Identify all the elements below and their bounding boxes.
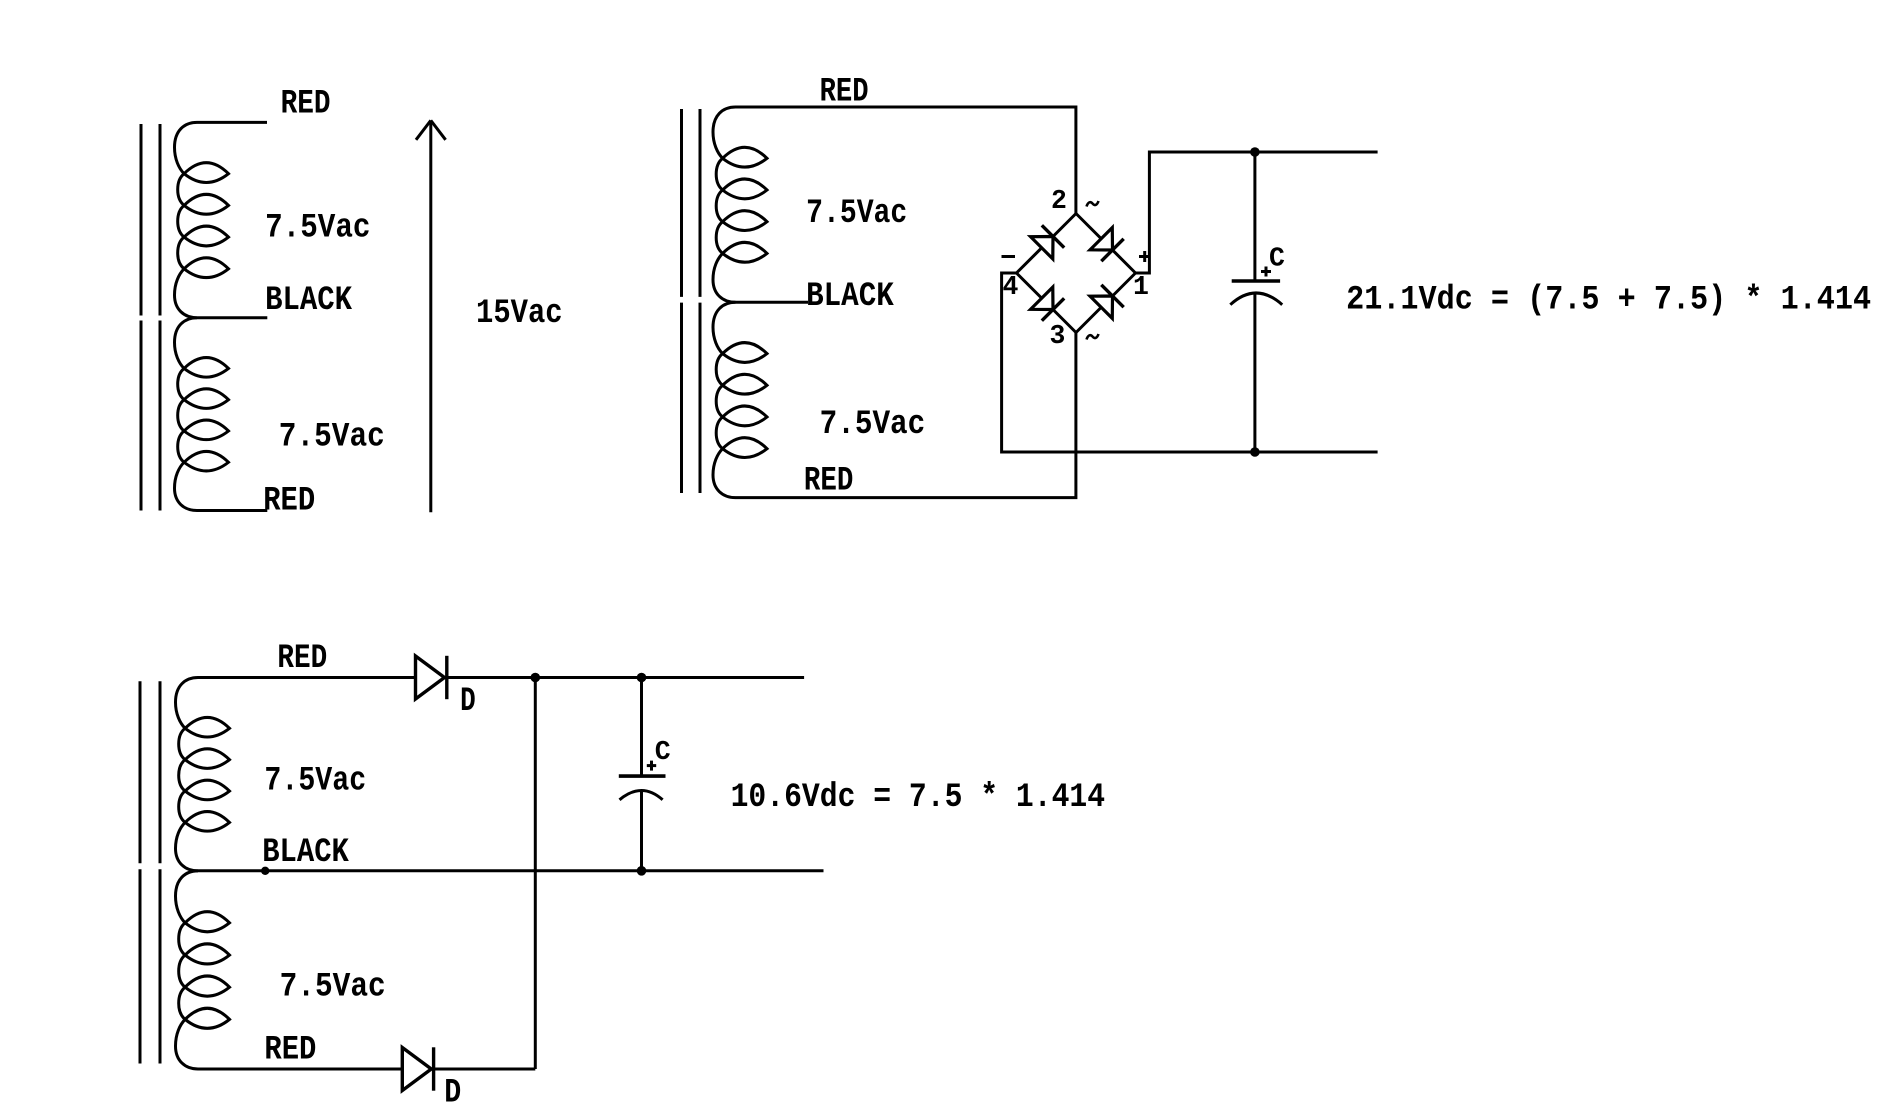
- wire T1 RED bottom lead: [197, 509, 267, 512]
- transformer T2 core: [682, 109, 701, 493]
- svg-text:RED: RED: [264, 1031, 316, 1070]
- wire T1 BLACK center tap lead: [197, 316, 267, 319]
- wire T2 BLACK center tap lead: [736, 301, 809, 304]
- svg-text:7.5Vac: 7.5Vac: [820, 405, 926, 444]
- svg-text:10.6Vdc = 7.5 * 1.414: 10.6Vdc = 7.5 * 1.414: [731, 778, 1106, 817]
- wire T1 RED top lead: [197, 121, 267, 124]
- capacitor C2 top wire: [640, 678, 643, 775]
- transformer T1 lower winding: [175, 318, 229, 511]
- plus sign at capacitor C2: [647, 761, 656, 771]
- diode bridge D top-right (points to node 1): [1090, 228, 1124, 262]
- junction dot bottom rail at C1: [1250, 447, 1260, 457]
- junction dot top rail at C2: [637, 673, 647, 683]
- capacitor C2 curved plate: [620, 791, 663, 800]
- transformer T1 upper winding: [175, 122, 229, 317]
- junction dot top rail at C1: [1250, 147, 1260, 157]
- bridge edge node2-node1: [1076, 214, 1136, 274]
- plus sign at capacitor C1: [1261, 267, 1271, 277]
- svg-text:21.1Vdc = (7.5 + 7.5) * 1.414: 21.1Vdc = (7.5 + 7.5) * 1.414: [1346, 281, 1871, 320]
- junction dot black rail at C2: [637, 866, 647, 876]
- svg-text:7.5Vac: 7.5Vac: [265, 209, 370, 248]
- diode bridge D top-left (points to node 2): [1031, 225, 1065, 259]
- wire T2 RED bottom lead to bridge node 3: [736, 333, 1076, 498]
- svg-text:7.5Vac: 7.5Vac: [264, 762, 366, 801]
- minus sign at bridge node 4: [1002, 255, 1016, 258]
- 15Vac arrow: [416, 120, 446, 512]
- svg-text:7.5Vac: 7.5Vac: [280, 968, 386, 1007]
- svg-text:BLACK: BLACK: [265, 281, 352, 320]
- wire bridge node4 (-) to bottom rail: [1002, 273, 1378, 452]
- wire T3 RED bottom lead: [198, 1068, 535, 1071]
- svg-text:15Vac: 15Vac: [476, 294, 563, 333]
- svg-text:2: 2: [1051, 186, 1067, 216]
- svg-text:RED: RED: [277, 639, 327, 678]
- svg-text:D: D: [460, 682, 476, 721]
- svg-text:D: D: [444, 1074, 461, 1112]
- transformer T3 core: [140, 681, 160, 1063]
- bridge edge node3-node1: [1076, 273, 1136, 333]
- svg-text:7.5Vac: 7.5Vac: [279, 418, 385, 457]
- wire vertical from bottom diode to top rail: [534, 678, 537, 1070]
- transformer T3 lower winding: [176, 871, 230, 1069]
- tilde at bridge node 2: [1087, 201, 1099, 207]
- capacitor C1 bottom wire: [1253, 294, 1256, 452]
- svg-text:RED: RED: [804, 461, 854, 500]
- plus sign at bridge node 1: [1139, 251, 1151, 262]
- transformer T2 lower winding: [713, 302, 767, 497]
- junction dot top rail at vertical: [531, 673, 541, 683]
- svg-text:BLACK: BLACK: [806, 277, 894, 316]
- capacitor C1 top plate: [1232, 279, 1280, 283]
- junction dot T3 center tap: [261, 867, 269, 875]
- tilde at bridge node 3: [1087, 334, 1099, 340]
- svg-text:RED: RED: [820, 73, 869, 112]
- diode D1 (top half-wave): [416, 656, 447, 699]
- bridge edge node4-node3: [1017, 273, 1077, 333]
- capacitor C2 bottom wire: [640, 791, 643, 871]
- transformer T2 upper winding: [713, 107, 767, 302]
- diode bridge D bottom-left (points to node 3): [1031, 287, 1065, 321]
- wire T3 RED top lead and +DC rail: [198, 676, 804, 679]
- svg-text:4: 4: [1003, 272, 1019, 302]
- wire bridge node1 (+) to top rail: [1136, 152, 1378, 273]
- transformer T1 core: [141, 124, 160, 511]
- capacitor C1 curved plate: [1230, 293, 1282, 305]
- diode D2 (bottom half-wave): [402, 1047, 433, 1090]
- svg-text:BLACK: BLACK: [262, 833, 349, 872]
- svg-text:3: 3: [1050, 321, 1066, 351]
- wire T2 RED top lead to bridge node 2: [736, 107, 1076, 214]
- capacitor C1 top wire: [1253, 152, 1256, 280]
- capacitor C2 top plate: [619, 774, 666, 778]
- svg-text:RED: RED: [281, 85, 331, 124]
- wire T3 BLACK center tap rail: [198, 869, 824, 872]
- svg-text:C: C: [1269, 243, 1285, 273]
- diode bridge D bottom-right (points to node 1): [1090, 285, 1124, 319]
- svg-text:7.5Vac: 7.5Vac: [806, 194, 907, 233]
- bridge edge node4-node2: [1017, 214, 1077, 274]
- transformer T3 upper winding: [176, 678, 230, 871]
- svg-text:C: C: [655, 737, 671, 767]
- svg-text:1: 1: [1133, 272, 1149, 302]
- svg-text:RED: RED: [263, 482, 315, 521]
